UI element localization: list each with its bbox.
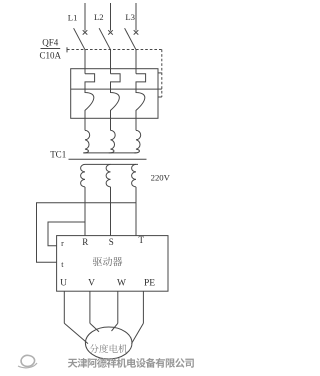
svg-text:S: S <box>109 237 114 247</box>
svg-text:220V: 220V <box>151 173 171 183</box>
svg-text:R: R <box>82 237 88 247</box>
svg-text:T: T <box>138 235 144 245</box>
svg-text:W: W <box>117 279 126 289</box>
svg-text:TC1: TC1 <box>50 150 66 160</box>
svg-text:C10A: C10A <box>40 50 62 60</box>
svg-text:QF4: QF4 <box>42 38 59 48</box>
svg-text:r: r <box>61 239 64 248</box>
svg-text:PE: PE <box>144 279 155 289</box>
svg-text:U: U <box>60 279 67 289</box>
svg-text:L2: L2 <box>94 12 104 22</box>
svg-text:L3: L3 <box>125 12 135 22</box>
svg-text:L1: L1 <box>68 13 78 23</box>
svg-text:V: V <box>88 279 95 289</box>
